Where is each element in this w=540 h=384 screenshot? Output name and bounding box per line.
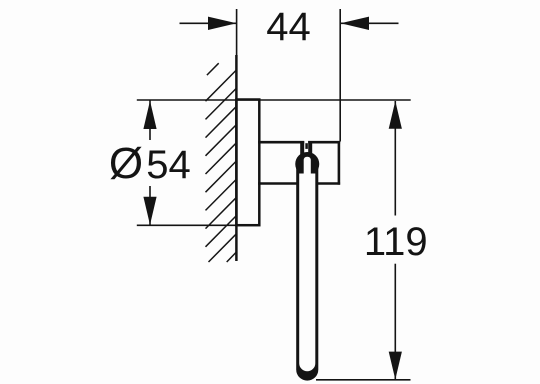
ball joint bulb — [295, 152, 319, 176]
svg-text:44: 44 — [266, 5, 311, 49]
extension line: top reference (plate top / 119 top) — [137, 99, 411, 101]
svg-text:119: 119 — [364, 220, 428, 264]
tube white interior — [299, 174, 315, 372]
dimension D54: down arrowhead — [143, 197, 156, 225]
dimension 44: right extension line — [339, 9, 341, 142]
extension line: bottom reference (loop bottom) — [316, 379, 411, 381]
dimension 119: down arrowhead — [389, 352, 402, 380]
stem right wall — [308, 141, 312, 156]
holder arm bottom edge right segment — [318, 182, 340, 185]
dimension 44: left tail line — [180, 22, 237, 24]
roll-holder tube outer (stadium) — [296, 160, 318, 381]
wall face line — [235, 55, 238, 261]
holder arm bottom edge left segment — [258, 182, 297, 185]
dimension 44: left arrowhead — [208, 17, 237, 30]
dimension 119: up arrowhead — [389, 101, 402, 129]
dimension 119: foot of first digit 1 — [370, 252, 380, 255]
dimension D54: up arrowhead — [143, 101, 156, 129]
wall plate (escutcheon side view) — [236, 100, 259, 226]
wall hatching — [206, 63, 238, 262]
dimension 44: right arrowhead — [341, 17, 369, 30]
extension line: plate bottom reference — [137, 224, 237, 226]
svg-text:Ø: Ø — [109, 139, 143, 188]
holder arm right edge — [338, 141, 341, 185]
dimension 44: right tail line — [341, 22, 399, 24]
dimension D54: dimension line lower segment — [149, 186, 151, 225]
dimension 119: dimension line lower segment — [394, 264, 396, 380]
stem left wall — [300, 141, 304, 156]
dimension 119: foot of second digit 1 — [390, 252, 400, 255]
dimension D54: dimension line upper segment — [149, 101, 151, 141]
holder arm top edge — [258, 141, 340, 144]
stem notch white gap in arm top edge — [304, 140, 308, 153]
dimension 44: left extension line — [236, 9, 238, 58]
svg-text:54: 54 — [146, 143, 191, 187]
bulb white slot — [304, 157, 311, 175]
dimension 119: dimension line upper segment — [394, 101, 396, 216]
stem slot mark — [305, 143, 308, 149]
